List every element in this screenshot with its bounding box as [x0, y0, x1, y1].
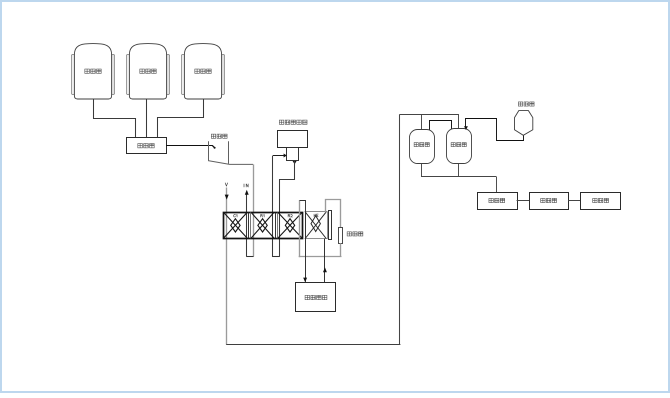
section R2 pattern: [278, 212, 302, 238]
label C1: [234, 214, 238, 217]
label HE: [314, 214, 318, 217]
label 保温管: [347, 232, 363, 236]
wire seed tank to tank B with arrow: [464, 119, 524, 141]
wire V line + big U loop: [226, 115, 400, 345]
wire pi-top R2/HE: [300, 201, 306, 213]
wire fermentation-cold storage: [568, 200, 581, 202]
section HE gray box: [305, 212, 328, 239]
tank T1 调配罐: [72, 44, 115, 99]
wire tank3 to manifold: [158, 100, 204, 138]
wire tank1 to manifold: [94, 100, 136, 138]
tank T3 调配罐: [182, 44, 225, 99]
label 种子罐: [518, 102, 534, 106]
manifold box 多叉管: [127, 138, 167, 154]
section C1 pattern: [224, 212, 248, 238]
pressure tank A 稳压罐: [410, 130, 435, 164]
wire to hot water unit, down arrow: [303, 212, 307, 282]
wire homogenizer loop: [272, 156, 294, 257]
wire manifold to balance tank, bent arrow: [166, 145, 216, 148]
wire tank bottoms to filler: [421, 164, 497, 192]
filler box 充填机: [478, 193, 518, 210]
holding tube 保温管: [339, 228, 343, 244]
wire balance outlet down (gray): [253, 164, 255, 256]
label R2: [288, 214, 292, 217]
section R1 pattern: [251, 212, 274, 238]
wire HE top loop to holding tube (gray): [326, 200, 341, 228]
cold storage box 冷藏库: [581, 193, 621, 210]
arrow down on V line: [225, 195, 229, 200]
seed tank 种子罐: [515, 111, 533, 136]
wire from hot water unit, up arrow: [323, 239, 327, 283]
divider 2: [275, 212, 277, 238]
hot water unit 热水设备: [296, 283, 336, 312]
wire transfer line with hook arrow: [430, 121, 452, 137]
wire IN riser, up arrow: [245, 190, 254, 257]
homogenizer 高压均质机: [278, 120, 308, 160]
label R1: [261, 214, 264, 217]
wire holding tube return (gray): [299, 200, 342, 257]
wire tank2 to manifold: [146, 99, 148, 138]
wire filler-fermentation: [517, 200, 529, 202]
balance tank 平衡槽: [208, 134, 253, 164]
wire feed arrow into homogenizer: [273, 154, 287, 158]
outlet arrow below homogenizer: [293, 161, 297, 164]
label V: [225, 183, 227, 186]
tank T2 调配罐: [127, 44, 170, 99]
divider 1: [248, 212, 250, 238]
label IN: [244, 184, 248, 187]
fermentation box 发酵室: [530, 193, 569, 210]
heat exchanger bold box: [224, 213, 303, 239]
pressure tank B 稳压罐: [447, 129, 472, 164]
wire header to pressure tanks: [399, 115, 459, 130]
end plate: [329, 211, 332, 240]
